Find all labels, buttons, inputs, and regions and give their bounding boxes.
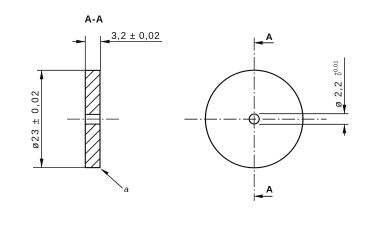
svg-text:ø 2,2: ø 2,2 bbox=[334, 81, 345, 108]
svg-text:A: A bbox=[266, 185, 273, 196]
svg-text:A-A: A-A bbox=[85, 15, 104, 26]
svg-text:3,2 ± 0,02: 3,2 ± 0,02 bbox=[111, 31, 160, 42]
svg-text:A: A bbox=[266, 32, 273, 43]
svg-text:ø23 ± 0,02: ø23 ± 0,02 bbox=[31, 90, 42, 149]
svg-text:a: a bbox=[124, 184, 129, 194]
svg-text:0: 0 bbox=[338, 72, 344, 75]
